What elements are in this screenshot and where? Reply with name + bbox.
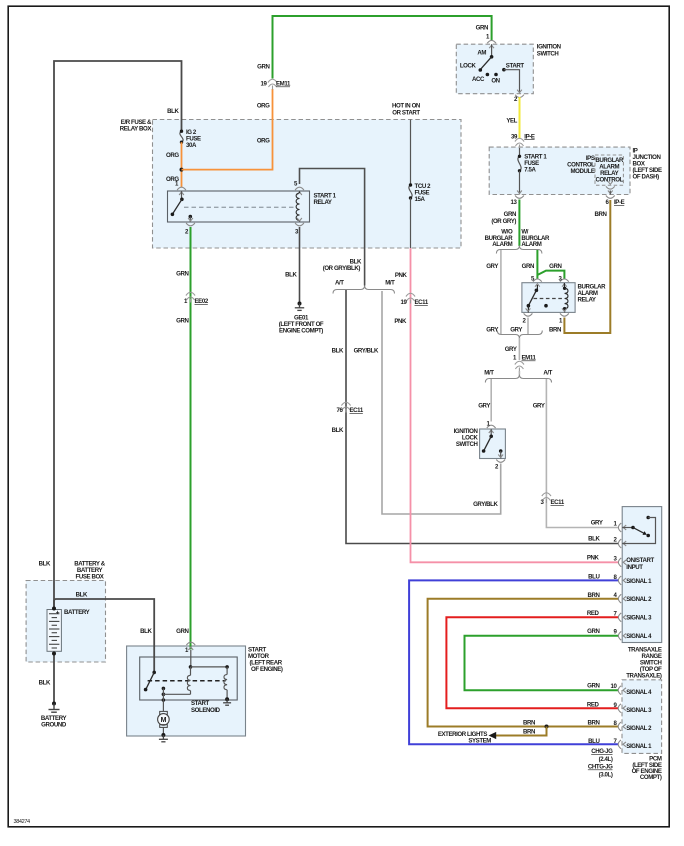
label GRN relay out upper: [176, 271, 188, 278]
label PNK transaxle pin3: [587, 555, 600, 562]
start 1 relay internals: [171, 191, 300, 222]
label BLK battery horizontal: [76, 592, 88, 599]
svg-text:76: 76: [337, 407, 344, 414]
label AM: [477, 50, 486, 57]
label BLK below EC11: [332, 427, 344, 434]
label PNK lower: [394, 318, 407, 325]
label pin 3 burglar relay: [559, 276, 563, 283]
pin 2 burglar alarm relay: [524, 308, 533, 316]
label SIGNAL 1: [626, 578, 652, 585]
label pin 9 transaxle: [614, 629, 618, 636]
svg-text:GRN: GRN: [587, 683, 599, 690]
label BURGLAR ALARM RELAY: [578, 284, 607, 304]
label GRY/BLK m/t wire: [354, 348, 379, 355]
svg-text:BLU: BLU: [588, 574, 600, 581]
transaxle range switch internals: [622, 516, 655, 544]
label GRN pin5: [522, 263, 534, 270]
svg-text:BRN: BRN: [523, 719, 535, 726]
svg-text:ORG: ORG: [166, 152, 179, 159]
label BLK battery riser top: [39, 561, 51, 568]
label GRN signal4: [587, 628, 599, 635]
label pin 76 EC11: [337, 407, 364, 414]
label pin 1 start relay: [175, 181, 179, 188]
svg-text:PNK: PNK: [394, 318, 407, 325]
svg-text:HOT IN ON: HOT IN ON: [392, 103, 420, 110]
label ORG lower: [257, 138, 270, 145]
label START MOTOR: [248, 647, 283, 674]
label pin 3 start relay: [295, 229, 299, 236]
wire GRY EM11 to split brace: [518, 371, 520, 375]
svg-text:(3.0L): (3.0L): [599, 771, 613, 778]
brace split W/O - W/ burglar alarm: [496, 246, 542, 254]
burglar alarm relay internals: [527, 283, 568, 312]
label M/T branch: [385, 280, 395, 287]
svg-text:RELAY BOX: RELAY BOX: [120, 126, 153, 133]
svg-text:BLK: BLK: [332, 348, 344, 355]
svg-text:BLK: BLK: [39, 561, 51, 568]
label START 1 RELAY: [314, 193, 337, 207]
svg-text:GRY: GRY: [533, 403, 545, 410]
fuse START 1 7.5A: [518, 155, 521, 173]
label CHG-JG connectors: [588, 748, 613, 778]
svg-text:BLK: BLK: [285, 272, 297, 279]
arrow exterior lights: [489, 732, 497, 739]
label pin 2 burglar relay: [523, 318, 527, 325]
svg-text:BLK: BLK: [167, 108, 179, 115]
label TCU 2 FUSE 15A: [415, 183, 432, 203]
label START SOLENOID: [191, 700, 221, 714]
ground GE01: [295, 302, 304, 311]
pin 1 burglar alarm relay: [560, 308, 569, 316]
svg-text:30A: 30A: [186, 142, 197, 149]
svg-text:(OR GRY): (OR GRY): [491, 218, 516, 225]
svg-text:BRN: BRN: [523, 728, 535, 735]
svg-text:ENGINE COMPT): ENGINE COMPT): [279, 328, 323, 335]
label pin 19 EC11: [401, 299, 429, 306]
svg-text:39: 39: [511, 133, 518, 140]
svg-text:BLK: BLK: [76, 592, 88, 599]
svg-text:SIGNAL 3: SIGNAL 3: [626, 707, 652, 714]
svg-text:MODULE: MODULE: [570, 168, 594, 175]
svg-text:GRN: GRN: [257, 64, 269, 71]
wire GRN w/ burglar alarm branch to relay pins 5 and 3: [537, 250, 564, 280]
connector EC11 pin 3: [542, 493, 551, 503]
ignition lock switch box: [480, 429, 506, 459]
brace merge GRY: [497, 331, 542, 339]
svg-text:SWITCH: SWITCH: [456, 441, 478, 448]
label pin 8 transaxle: [614, 574, 618, 581]
svg-text:ORG: ORG: [257, 138, 270, 145]
wire TCU fuse to box edge: [410, 198, 412, 248]
brace split A/T - M/T: [333, 286, 395, 294]
pin 7 transaxle range switch: [618, 613, 626, 622]
label ORG at relay pin: [166, 176, 179, 183]
svg-text:(OR GRY/BLK): (OR GRY/BLK): [323, 265, 361, 272]
label BLU pcm pin7: [588, 738, 600, 745]
pin 1 ignition lock switch: [487, 425, 496, 433]
wire RED signal 3: [446, 617, 618, 708]
svg-text:GRY: GRY: [510, 327, 522, 334]
svg-text:ORG: ORG: [257, 103, 270, 110]
pin 2 ignition lock switch: [496, 455, 505, 463]
connector EM11 pin 1: [515, 361, 524, 371]
label W/ BURGLAR ALARM: [521, 229, 550, 249]
label pin 1 lock switch: [487, 421, 491, 428]
svg-text:OF ENGINE): OF ENGINE): [251, 666, 283, 673]
label GRY transaxle pin1: [591, 520, 603, 527]
svg-text:START: START: [191, 700, 210, 707]
ground start solenoid: [223, 697, 231, 705]
label SIGNAL 3 PCM: [626, 707, 652, 714]
svg-text:GRY/BLK: GRY/BLK: [473, 501, 498, 508]
pin 10 PCM: [618, 686, 626, 695]
label ORG fuse out: [166, 152, 179, 159]
label 384274: [14, 819, 31, 825]
wire to START 1 fuse: [519, 148, 521, 156]
label SIGNAL 1 PCM: [626, 743, 652, 750]
fuse IG 2 30A: [180, 130, 183, 144]
wire GRN relay pin 2 to start motor: [190, 227, 192, 650]
svg-text:M/T: M/T: [484, 370, 494, 377]
label pin 2 start relay: [185, 229, 189, 236]
svg-text:GRN: GRN: [522, 263, 534, 270]
svg-text:GRN: GRN: [549, 263, 561, 270]
label M/T split: [484, 370, 494, 377]
svg-text:SIGNAL 2: SIGNAL 2: [626, 725, 652, 732]
label pin 5 start relay: [294, 181, 298, 188]
svg-text:GRN: GRN: [476, 25, 488, 32]
pin 5 start 1 relay: [295, 187, 304, 195]
label pin 19 EM11: [261, 81, 291, 88]
label BRN branch upper: [523, 719, 535, 726]
label TRANSAXLE RANGE SWITCH: [626, 646, 662, 679]
label pin 6 IP-E: [606, 199, 625, 206]
label EXTERIOR LIGHTS SYSTEM: [438, 731, 491, 745]
label GRN pin3: [549, 263, 561, 270]
svg-text:RELAY: RELAY: [314, 199, 332, 206]
pin 8 PCM: [618, 722, 626, 731]
battery symbol: [47, 607, 61, 656]
label ON: [491, 78, 499, 85]
svg-text:19: 19: [401, 299, 408, 306]
label GRY a/t: [533, 403, 545, 410]
svg-text:BLK: BLK: [39, 680, 51, 687]
label pin 7 PCM: [614, 738, 618, 745]
wire GRY A/T branch to transaxle pin 1: [546, 379, 618, 528]
svg-text:EM11: EM11: [276, 81, 291, 88]
pin 13 IP junction box: [515, 191, 524, 199]
pin 9 PCM: [618, 704, 626, 713]
svg-text:COMPT): COMPT): [640, 774, 662, 781]
burglar alarm relay box: [522, 283, 575, 313]
label BRN out pin1: [549, 327, 561, 334]
svg-text:13: 13: [511, 199, 518, 206]
wire BLK battery to ground: [53, 654, 55, 704]
label GRN (OR GRY): [491, 211, 516, 225]
svg-text:ACC: ACC: [472, 76, 485, 83]
wire GRN signal 4: [465, 636, 619, 690]
label BRN pcm pin8: [587, 720, 599, 727]
transaxle range switch box: [622, 507, 662, 643]
label IPS CONTROL MODULE: [567, 155, 595, 175]
svg-text:SIGNAL 2: SIGNAL 2: [626, 596, 652, 603]
start motor internals: [144, 650, 229, 711]
svg-text:SYSTEM: SYSTEM: [468, 737, 491, 744]
label IGNITION LOCK SWITCH: [454, 428, 479, 448]
label BATTERY: [64, 609, 90, 616]
pin 2 transaxle range switch: [618, 539, 626, 548]
svg-text:19: 19: [261, 81, 268, 88]
svg-text:CHG-JG: CHG-JG: [591, 748, 613, 755]
svg-text:BRN: BRN: [587, 592, 599, 599]
label RED signal3: [587, 610, 600, 617]
svg-text:GRY: GRY: [505, 346, 517, 353]
E/R fuse & relay box: [153, 120, 462, 249]
svg-text:YEL: YEL: [506, 118, 517, 125]
label W/O BURGLAR ALARM: [485, 229, 514, 249]
label SIGNAL 2 PCM: [626, 725, 652, 732]
svg-text:BLK: BLK: [140, 628, 152, 635]
ground battery: [49, 702, 60, 713]
label GRN pcm pin10: [587, 683, 599, 690]
svg-text:LOCK: LOCK: [460, 62, 477, 69]
label pin 3 EC11: [541, 499, 565, 506]
svg-text:EC11: EC11: [415, 299, 429, 306]
ground start motor: [159, 733, 168, 742]
brace split M/T - A/T: [485, 375, 551, 383]
ignition lock switch internals: [482, 429, 503, 459]
svg-text:SIGNAL 4: SIGNAL 4: [626, 633, 652, 640]
svg-text:GRY: GRY: [591, 520, 603, 527]
svg-text:BRN: BRN: [549, 327, 561, 334]
svg-text:15A: 15A: [415, 196, 426, 203]
label GRY out left: [486, 327, 498, 334]
pin 7 PCM: [618, 740, 626, 749]
svg-text:A/T: A/T: [335, 280, 344, 287]
label pin 1 start motor: [185, 647, 189, 654]
label GRN at ignition switch: [476, 25, 488, 32]
label SIGNAL 4: [626, 633, 652, 640]
svg-text:EC11: EC11: [551, 499, 565, 506]
label pin 2 lock switch: [495, 464, 499, 471]
svg-text:GRN: GRN: [176, 318, 188, 325]
label ACC: [472, 76, 485, 83]
svg-text:BRN: BRN: [587, 720, 599, 727]
ignition switch internals: [479, 44, 520, 91]
wire GRN pin 13 to split brace: [518, 200, 520, 247]
wire GRY M/T branch to ignition lock switch: [490, 379, 492, 422]
wire GRY merge to EM11: [518, 338, 520, 360]
wire BLK battery to start motor: [54, 599, 154, 672]
wire BLU signal 1: [409, 580, 618, 744]
label GRY/BLK lock out: [473, 501, 498, 508]
svg-text:SIGNAL 1: SIGNAL 1: [626, 743, 652, 750]
wire TCU 2 fuse feed: [410, 120, 412, 186]
connector EM11 pin 19: [268, 79, 277, 89]
start motor box: [127, 646, 246, 736]
node ORG junction: [180, 168, 184, 172]
svg-text:IP-E: IP-E: [524, 133, 535, 140]
motor M start motor: [158, 711, 170, 735]
label pin 1 ignition switch: [486, 34, 490, 41]
label pin 3 transaxle: [614, 555, 618, 562]
wire YEL ignition switch to IP-E: [519, 97, 521, 139]
fuse TCU 2 15A: [409, 183, 412, 199]
IP junction box: [489, 147, 630, 194]
label PCM: [632, 755, 662, 781]
svg-text:RED: RED: [587, 610, 600, 617]
pin 3 transaxle range switch: [618, 558, 626, 567]
label BLK battery ground: [39, 680, 51, 687]
label pin 5 burglar relay: [531, 276, 535, 283]
svg-text:CONTROL: CONTROL: [596, 177, 624, 184]
label pin 1 EE02: [184, 298, 209, 305]
connector EE02 pin 1: [186, 292, 195, 302]
label START: [506, 62, 525, 69]
svg-text:GRY: GRY: [486, 263, 498, 270]
svg-text:BLU: BLU: [588, 738, 600, 745]
label GRY merged: [505, 346, 517, 353]
svg-text:A/T: A/T: [543, 370, 552, 377]
svg-text:GRY: GRY: [486, 327, 498, 334]
svg-text:OF DASH): OF DASH): [633, 174, 660, 181]
svg-text:SIGNAL 4: SIGNAL 4: [626, 689, 652, 696]
svg-text:EM11: EM11: [522, 355, 537, 362]
label GRY out pin2: [510, 327, 522, 334]
label A/T branch: [335, 280, 344, 287]
label BATTERY & BATTERY FUSE BOX: [74, 560, 105, 580]
svg-text:GRN: GRN: [176, 628, 188, 635]
svg-text:BLK: BLK: [332, 427, 344, 434]
svg-text:ALARM: ALARM: [521, 241, 541, 248]
wire BRN relay pin 1 to IP-E pin 6: [564, 200, 610, 333]
label BLK coil out: [285, 272, 297, 279]
label IG 2 FUSE 30A: [186, 129, 201, 149]
label pin 2 ignition switch: [514, 96, 518, 103]
wire fuse to pin 13: [519, 171, 521, 195]
label A/T split: [543, 370, 552, 377]
label ON/START INPUT: [626, 557, 654, 571]
svg-text:(2.4L): (2.4L): [599, 756, 613, 763]
label ground GE01: [279, 315, 324, 335]
ignition switch box: [456, 44, 533, 93]
label SIGNAL 4 PCM: [626, 689, 652, 696]
wire ORG fuse to relay pin 1: [181, 142, 183, 187]
svg-text:OR START: OR START: [392, 110, 420, 117]
svg-text:START: START: [506, 62, 525, 69]
pin 1 start motor: [186, 642, 195, 650]
label YEL: [506, 118, 517, 125]
wire GRY relay pin 2 to merge brace: [527, 318, 529, 335]
wire GRY/BLK lock switch to M/T brace branch: [382, 291, 501, 514]
pin 2 start 1 relay: [186, 218, 195, 226]
label BLK (OR GRY/BLK): [323, 259, 362, 272]
svg-text:IP-E: IP-E: [614, 199, 625, 206]
label GRY m/t: [478, 403, 490, 410]
label pin 1 burglar relay: [559, 318, 563, 325]
svg-text:GRN: GRN: [587, 628, 599, 635]
battery & battery fuse box: [26, 581, 105, 663]
label pin 39 IP-E: [511, 133, 535, 140]
pin 8 transaxle range switch: [618, 576, 626, 585]
svg-text:TRANSAXLE): TRANSAXLE): [626, 673, 662, 680]
label BURGLAR ALARM RELAY CONTROL: [595, 157, 624, 184]
pin 3 burglar alarm relay: [560, 279, 569, 287]
pin 1 start 1 relay: [177, 187, 186, 195]
pin 3 start 1 relay: [295, 218, 304, 226]
svg-text:GRY: GRY: [478, 403, 490, 410]
wire BLK A/T branch to transaxle pin 2: [346, 290, 618, 544]
label SIGNAL 3: [626, 615, 652, 622]
svg-text:10: 10: [611, 683, 618, 690]
svg-text:FUSE BOX: FUSE BOX: [76, 573, 105, 580]
wire ORG junction to EM11: [182, 89, 273, 170]
label BLK a/t wire: [332, 348, 344, 355]
svg-text:PNK: PNK: [395, 272, 408, 279]
label IP JUNCTION BOX: [633, 148, 663, 181]
start motor inner box: [140, 657, 238, 700]
PCM box: [622, 680, 662, 754]
pin 1 ignition switch: [487, 40, 496, 48]
svg-text:M: M: [161, 717, 167, 724]
label BRN signal2: [587, 592, 599, 599]
label BRN under IP box: [594, 211, 606, 218]
label E/R fuse & relay box: [120, 119, 153, 133]
label BLK top riser: [167, 108, 179, 115]
svg-text:GRN: GRN: [176, 271, 188, 278]
label ORG upper: [257, 103, 270, 110]
label GRN start motor feed: [176, 628, 188, 635]
pin 4 transaxle range switch: [618, 594, 626, 603]
svg-text:384274: 384274: [14, 819, 31, 825]
svg-text:BATTERY: BATTERY: [64, 609, 90, 616]
label ignition switch: [537, 44, 561, 58]
svg-text:EC11: EC11: [350, 407, 364, 414]
svg-text:BLK: BLK: [588, 535, 600, 542]
wire BLK battery to IG2 fuse: [54, 61, 182, 609]
wire BRN signal 2: [428, 599, 619, 727]
label pin 7 transaxle: [614, 610, 618, 617]
burglar alarm relay control inner box: [595, 155, 623, 185]
label BRN branch lower: [523, 728, 535, 735]
label PNK upper: [395, 272, 408, 279]
label BLK transaxle pin2: [588, 535, 600, 542]
label GRY left branch: [486, 263, 498, 270]
label GRN top: [257, 64, 269, 71]
label BLU signal1: [588, 574, 600, 581]
svg-text:7.5A: 7.5A: [524, 167, 536, 174]
label START 1 FUSE 7.5A: [524, 154, 547, 174]
wire PNK to transaxle pin 3: [411, 248, 619, 562]
label pin 8 PCM: [614, 720, 618, 727]
connector EC11 pin 76: [341, 402, 350, 412]
label GRN relay out lower: [176, 318, 188, 325]
wire BLK relay pin 3 to ground GE01: [299, 227, 301, 304]
label pin 10 PCM: [611, 683, 618, 690]
svg-text:RED: RED: [587, 702, 600, 709]
pin 2 ignition switch: [515, 90, 524, 98]
svg-text:GRY/BLK: GRY/BLK: [354, 348, 379, 355]
svg-text:EE02: EE02: [195, 298, 209, 305]
svg-text:ALARM: ALARM: [492, 241, 512, 248]
label pin 1 EM11: [513, 355, 536, 362]
svg-text:SIGNAL 1: SIGNAL 1: [626, 578, 652, 585]
pin 1 transaxle range switch: [618, 523, 626, 532]
label BATTERY GROUND: [41, 715, 67, 729]
label RED pcm pin9: [587, 702, 600, 709]
wire GRN EM11 to ignition switch: [273, 16, 492, 79]
svg-text:RELAY: RELAY: [578, 297, 596, 304]
